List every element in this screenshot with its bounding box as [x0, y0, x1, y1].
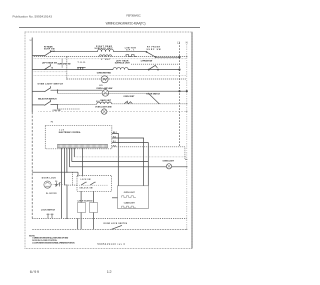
svg-text:R-8: R-8 — [55, 184, 58, 186]
wire harness v6 — [73, 148, 75, 157]
wire dotted mid — [74, 156, 187, 158]
wire tb2 down — [93, 213, 95, 230]
terminal block rect 1 — [78, 203, 86, 213]
console dashed box — [45, 126, 112, 149]
node rung2/L2 — [179, 69, 180, 70]
wire lamp rung — [69, 166, 186, 168]
lamp oven cavity — [166, 164, 171, 169]
wire rung4 — [51, 103, 58, 105]
svg-text:SELECTOR SWITCH: SELECTOR SWITCH — [38, 98, 57, 100]
svg-text:OVEN LIGHT: OVEN LIGHT — [124, 192, 136, 194]
switch door — [148, 93, 159, 103]
lamp oven light 1 — [102, 90, 109, 97]
wire rung2 right — [128, 69, 179, 71]
svg-text:OVEN VENT: OVEN VENT — [123, 96, 135, 98]
wire harness v4 — [68, 148, 70, 167]
oven light switch box — [118, 186, 149, 209]
component vent damper — [124, 101, 132, 104]
wire inside box — [79, 184, 108, 186]
component lock plunger — [47, 214, 54, 219]
svg-text:LOCK SWITCH: LOCK SWITCH — [41, 209, 56, 211]
header rule — [19, 27, 200, 29]
wire dotted short — [34, 71, 67, 73]
wire rung3 to lamp — [51, 89, 103, 91]
wire dashed rung4 right — [112, 103, 187, 105]
rail L2 — [179, 42, 181, 147]
wire rung1 to L2 — [114, 51, 147, 53]
wire harness v7 — [82, 148, 84, 176]
svg-text:LOCK SW: LOCK SW — [81, 179, 91, 181]
diagram frame (perforated) — [25, 32, 192, 249]
svg-text:SURFACE UNIT: SURFACE UNIT — [115, 62, 131, 65]
wire dashed vertical feed — [72, 172, 74, 185]
heating element right rear surface unit — [98, 49, 114, 52]
wire harness w4 dashed — [112, 147, 187, 160]
wire rung3 lamp to N — [109, 90, 187, 92]
svg-text:T.O.D.: T.O.D. — [78, 62, 87, 64]
switch left rear surface SW blade — [44, 66, 49, 70]
rail L1 lower dashed — [31, 112, 33, 218]
wire dashed branch row — [67, 78, 187, 80]
wire harness v5 — [71, 148, 73, 162]
rail N — [186, 42, 188, 229]
switch left front SW blade — [149, 65, 158, 69]
node lamp rung tap — [57, 89, 58, 90]
heating element inner coil row1 — [99, 55, 112, 57]
wire dashed doorlock feed — [64, 184, 78, 186]
thermal protector posts — [77, 67, 85, 69]
dashed box door lock switches — [77, 175, 112, 191]
wire step down — [77, 218, 79, 229]
lamp oven light 2 — [102, 109, 107, 114]
svg-text:5995419143 rev 0: 5995419143 rev 0 — [97, 243, 125, 246]
svg-text:N: N — [186, 40, 188, 44]
wire cam down — [66, 185, 68, 219]
svg-text:DL MOTOR: DL MOTOR — [46, 193, 57, 195]
svg-text:6/99: 6/99 — [30, 269, 39, 274]
wire rung1 high — [51, 51, 98, 53]
wire dashed rung4 — [58, 104, 97, 106]
motor fan M1 — [101, 76, 108, 83]
switch right rear surface SW1 — [44, 52, 49, 56]
wire dashed row3b — [58, 92, 149, 94]
svg-text:BAKE UNIT: BAKE UNIT — [101, 99, 112, 102]
wire dotted rung5 — [39, 110, 187, 112]
svg-text:OVEN LIGHT SWITCH: OVEN LIGHT SWITCH — [38, 83, 64, 85]
svg-text:LT FRONT SW: LT FRONT SW — [141, 61, 153, 63]
wire harness v3 — [66, 148, 68, 172]
svg-text:Publication No. 5995419143: Publication No. 5995419143 — [13, 15, 53, 19]
svg-text:V-9: V-9 — [55, 181, 57, 183]
wire harness w2 — [112, 138, 144, 186]
contact row1 — [122, 196, 136, 198]
heating element bake — [97, 102, 112, 104]
svg-text:12: 12 — [107, 269, 112, 274]
switch lock 1 — [82, 182, 87, 185]
svg-text:LEFT REAR SW: LEFT REAR SW — [42, 61, 57, 64]
switch cam blade — [55, 182, 61, 186]
wire dotted row — [34, 58, 187, 60]
switch lock 2 — [91, 182, 96, 185]
rail L1 upper — [31, 38, 33, 113]
svg-text:UNLOCK SW: UNLOCK SW — [80, 188, 93, 190]
svg-text:OVEN LIGHT 40W: OVEN LIGHT 40W — [95, 106, 112, 109]
wire dashed neutral row 1 — [34, 56, 187, 58]
terminal block rect 2 — [90, 203, 98, 213]
wire rung1 stub from L1 — [32, 54, 44, 56]
svg-text:P2: P2 — [51, 121, 53, 123]
svg-text:SURF SW: SURF SW — [147, 49, 161, 51]
node rung1/L2 — [179, 57, 180, 58]
svg-text:H2: H2 — [51, 67, 53, 69]
switch cam post 2 — [59, 182, 61, 186]
limiter component — [126, 55, 137, 57]
svg-text:SURF UNIT SW: SURF UNIT SW — [58, 63, 71, 65]
switch cam post 1 — [56, 182, 58, 186]
heating element left rear surface unit — [113, 67, 128, 69]
svg-text:DOOR LOCK: DOOR LOCK — [42, 177, 57, 179]
wire harness w3 — [112, 143, 149, 186]
wire L1 branch — [32, 171, 78, 173]
wire harness v2 — [63, 148, 65, 185]
motor door lock — [44, 181, 51, 188]
wire rung3 stub — [32, 90, 44, 92]
wire harness v1 — [60, 148, 62, 218]
wire tb1 up — [80, 191, 82, 202]
svg-text:40W: 40W — [99, 85, 103, 87]
svg-text:LATCH SOLENOID: LATCH SOLENOID — [78, 199, 94, 202]
svg-text:L1: L1 — [30, 38, 34, 42]
wire into box left — [112, 197, 118, 199]
svg-text:FEF366ASC: FEF366ASC — [126, 14, 141, 18]
wire bottom rung B — [32, 228, 187, 230]
frame right border — [191, 32, 193, 249]
wire tap down — [57, 90, 59, 93]
svg-text:DOOR LOCK SWITCH: DOOR LOCK SWITCH — [104, 223, 128, 225]
wire dashed vertical tie — [66, 57, 68, 79]
wire dashed sub — [58, 108, 81, 110]
svg-text:2. COMPONENTS SHOWN IN NORMAL: 2. COMPONENTS SHOWN IN NORMAL OPERATING … — [32, 241, 75, 244]
switch oven selector — [44, 102, 50, 106]
svg-text:ELECTRONIC CONTROL: ELECTRONIC CONTROL — [59, 132, 82, 134]
wire dashed row2 partial — [131, 63, 180, 65]
svg-text:OVEN LIGHT: OVEN LIGHT — [163, 161, 175, 163]
svg-text:OVEN VENT FAN: OVEN VENT FAN — [97, 71, 112, 74]
switch oven light — [44, 88, 50, 92]
wire rung mid — [72, 161, 149, 163]
wire harness w1 — [112, 133, 119, 185]
wire vertical tie — [61, 59, 63, 68]
connector header strip — [58, 144, 108, 148]
svg-text:WIRING DIAGRAM 5C-46AA(TC): WIRING DIAGRAM 5C-46AA(TC) — [106, 22, 146, 26]
wire rung1 drop segment to L2 — [156, 56, 180, 58]
node dashed/N — [186, 56, 187, 57]
wire cam dotted — [51, 184, 66, 186]
svg-text:SURF SW: SURF SW — [44, 49, 55, 51]
contact row2 — [122, 206, 136, 208]
wire rung2 — [32, 69, 113, 71]
svg-text:L2: L2 — [177, 40, 181, 44]
wire tb2 up — [93, 191, 95, 202]
switch bottom — [112, 226, 122, 230]
switch right front SW2 — [147, 52, 156, 57]
svg-text:8" UNIT: 8" UNIT — [101, 59, 111, 61]
wire rung4 stub — [32, 104, 44, 106]
wire tb1 down — [80, 213, 82, 230]
wire dotted full row — [34, 75, 187, 77]
svg-text:CLEAN LIGHT: CLEAN LIGHT — [124, 201, 136, 204]
wire bottom dashed rung A — [32, 217, 187, 219]
